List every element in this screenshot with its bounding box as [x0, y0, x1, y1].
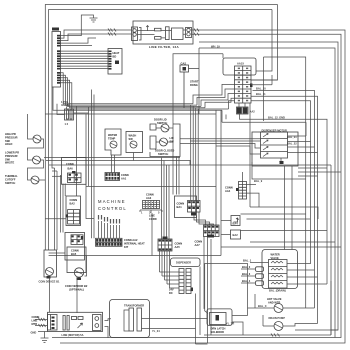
small box BA2 — [231, 230, 241, 239]
valve leads — [57, 104, 89, 115]
CONN BA6 box — [62, 158, 87, 185]
left switch circle 3 — [31, 176, 39, 184]
svg-text:CONN: CONN — [66, 162, 74, 166]
CONN AA5 grid — [158, 239, 172, 251]
filter left connector — [132, 27, 142, 41]
wires P12 groupC staircase down to bus — [53, 73, 229, 111]
verticals left of BA1 — [162, 158, 170, 240]
svg-text:BAL_(DRAIN): BAL_(DRAIN) — [269, 289, 286, 293]
CONN AA3 grid — [143, 201, 160, 209]
wire break symbols right of filter — [194, 29, 199, 36]
svg-text:HOLD: HOLD — [5, 142, 12, 146]
CONN AA2 grid bottom — [96, 238, 123, 246]
svg-text:BAL_12_GND: BAL_12_GND — [268, 116, 285, 120]
wires P12 groupA to line filter — [61, 30, 132, 46]
wires into dispenser motor left — [180, 139, 261, 154]
svg-text:BAL_4: BAL_4 — [242, 279, 251, 283]
svg-text:BAL_2: BAL_2 — [242, 265, 251, 269]
P12 pins group B — [57, 50, 60, 69]
filter arrow — [146, 26, 148, 32]
svg-text:HOT VALVE: HOT VALVE — [267, 297, 282, 301]
left text block 1 — [5, 132, 18, 146]
ground bottom left — [38, 332, 49, 343]
dispenser connector strips — [179, 269, 191, 294]
svg-text:BAL_C: BAL_C — [258, 304, 267, 308]
wash switch box — [126, 132, 143, 153]
misc right verticals — [263, 57, 265, 121]
svg-text:CONN: CONN — [175, 242, 183, 246]
transformer bars — [129, 308, 142, 331]
AA7 label — [195, 240, 203, 247]
svg-text:BA2: BA2 — [70, 201, 76, 205]
svg-text:WATER: WATER — [271, 253, 280, 257]
svg-text:HEAT: HEAT — [113, 51, 120, 55]
long wire y157.5 — [28, 157, 181, 159]
door closed label — [155, 149, 174, 156]
valve bank right wires — [287, 259, 327, 285]
svg-text:DISPENSER: DISPENSER — [176, 261, 191, 265]
valve bank left wires — [241, 263, 269, 284]
svg-text:GND: GND — [31, 331, 37, 335]
svg-text:BA1: BA1 — [177, 205, 183, 209]
svg-text:BA5: BA5 — [71, 252, 77, 256]
svg-text:LID: LID — [170, 136, 174, 140]
valve coil squiggles — [271, 261, 283, 284]
CONN AA7 grid — [204, 225, 220, 237]
dispenser motor wires right — [288, 122, 318, 152]
svg-text:AA4: AA4 — [225, 189, 231, 193]
dispenser feed wires — [85, 213, 180, 288]
water temp switch circle — [110, 141, 117, 148]
line filter box — [133, 21, 193, 44]
connector P12 label — [52, 28, 59, 31]
svg-text:WASTE: WASTE — [5, 161, 14, 165]
svg-text:MTR: MTR — [32, 322, 38, 326]
svg-text:SWITCH: SWITCH — [5, 181, 15, 185]
svg-text:CONN: CONN — [225, 186, 233, 190]
door lid switch box — [150, 124, 180, 157]
svg-text:SW: SW — [170, 139, 175, 143]
P12 pins group A — [57, 35, 60, 47]
filter block — [172, 28, 184, 40]
long wire y255.5 — [49, 255, 221, 257]
door lid circle B — [156, 138, 173, 146]
coin vendor box 2 — [67, 247, 86, 277]
svg-text:SOLENOID: SOLENOID — [211, 330, 225, 334]
connector P12 — [52, 32, 61, 88]
svg-text:CORD: CORD — [149, 217, 157, 221]
svg-text:WASH: WASH — [129, 134, 137, 138]
svg-text:CONN: CONN — [121, 173, 129, 177]
dispenser motor gnd arrow — [280, 158, 283, 164]
svg-text:SW: SW — [129, 137, 134, 141]
CONN AA3 label — [146, 193, 154, 200]
svg-text:BAL_11: BAL_11 — [256, 92, 266, 96]
left text block 2 — [5, 151, 19, 165]
wires P12 groupB to connector X2 — [61, 51, 109, 69]
AA1X grid — [235, 66, 252, 103]
svg-text:HIGH PR: HIGH PR — [5, 132, 16, 136]
svg-text:SWITCH: SWITCH — [158, 152, 168, 156]
CONN AA2 label — [124, 238, 145, 249]
svg-text:AA5: AA5 — [175, 245, 181, 249]
svg-text:INTERNAL HEAT: INTERNAL HEAT — [124, 241, 145, 245]
water temp switch box — [105, 129, 121, 155]
svg-text:AA7: AA7 — [195, 243, 201, 247]
wires filter out to right edge — [52, 30, 345, 343]
ground top — [81, 15, 97, 36]
wire y122 — [222, 121, 306, 123]
valve left tabs — [256, 267, 264, 286]
filter internal wires — [137, 30, 186, 38]
long wire y165 — [49, 165, 331, 335]
machine control bottom wire labels — [99, 221, 120, 238]
svg-text:BD: BD — [113, 54, 117, 58]
long wire y160.5 — [46, 161, 190, 166]
drain pump circle — [274, 322, 283, 331]
svg-text:CONN: CONN — [146, 193, 154, 197]
wire y48 — [199, 48, 335, 338]
filter right connector — [186, 28, 192, 38]
svg-text:DRN LATCH: DRN LATCH — [211, 327, 226, 331]
wire from AA2 down right — [240, 114, 328, 284]
filter cap C2 — [155, 37, 162, 40]
AA1X left entry steps — [193, 84, 235, 255]
left switch circle 1 — [33, 135, 41, 143]
lid sw small label — [170, 136, 175, 143]
X2 pin strip — [109, 51, 112, 70]
inner frame top/left wire — [49, 10, 272, 254]
wires from switch circles down — [77, 90, 134, 239]
left switch circle 2 — [33, 156, 41, 164]
filter cap C1 — [155, 28, 162, 31]
CONN AA4 label — [225, 186, 233, 193]
svg-text:SWI: SWI — [5, 139, 10, 143]
CONN AA4 strip — [239, 182, 247, 200]
svg-text:TRANSFORMER: TRANSFORMER — [124, 304, 144, 308]
door lid circle A — [156, 124, 173, 132]
X2 label — [115, 61, 119, 65]
filter coil — [166, 27, 170, 40]
door lid switch label — [154, 118, 167, 125]
dispenser motor arrows — [263, 134, 268, 157]
wires BA3 to AA7 — [194, 212, 214, 225]
motor left text — [32, 315, 40, 326]
svg-text:GAS: GAS — [181, 61, 187, 65]
svg-text:PRESSUR: PRESSUR — [5, 154, 18, 158]
water valve outer box — [262, 250, 298, 289]
motor left connector — [48, 315, 58, 331]
AA1X pin dot — [250, 84, 253, 88]
left column CONN BA5 — [65, 233, 85, 261]
svg-text:COMB: COMB — [32, 315, 40, 319]
circle1 wires — [28, 114, 44, 160]
svg-text:SWI: SWI — [5, 157, 10, 161]
CONN BA1 box — [175, 196, 197, 218]
svg-text:RONG: RONG — [190, 83, 198, 87]
wires AA1X grid bottom to AA2 — [239, 103, 245, 107]
AA3 bracket — [140, 210, 162, 213]
svg-text:BAL_21: BAL_21 — [287, 135, 297, 139]
svg-text:CONN AA2: CONN AA2 — [124, 238, 138, 242]
svg-text:YL_TR: YL_TR — [226, 322, 234, 326]
left text block 3 — [5, 174, 18, 185]
svg-text:BAL_9: BAL_9 — [254, 179, 263, 183]
svg-text:BAL_3: BAL_3 — [242, 272, 251, 276]
svg-text:LINE (MOTOR) 5A: LINE (MOTOR) 5A — [62, 333, 84, 337]
svg-text:THERMAL: THERMAL — [5, 174, 18, 178]
wire big box left — [173, 54, 223, 195]
svg-text:COIN VENDOR B2: COIN VENDOR B2 — [65, 284, 88, 288]
svg-text:BA6: BA6 — [68, 167, 74, 171]
svg-text:CONN: CONN — [195, 240, 203, 244]
left wires bundle — [52, 87, 65, 250]
motor arrow — [78, 323, 83, 328]
dispenser rounded box — [171, 258, 201, 267]
machine control top edge — [86, 186, 216, 218]
svg-text:DRAIN PUMP: DRAIN PUMP — [269, 316, 286, 320]
hot valve label — [267, 297, 282, 304]
svg-text:1 2: 1 2 — [65, 122, 69, 126]
svg-text:BAL_10: BAL_10 — [256, 87, 266, 91]
wire into BA2 — [45, 218, 66, 220]
connector X2 — [108, 49, 122, 75]
motor cap — [63, 316, 69, 331]
water valve label — [271, 253, 280, 260]
X2 text — [113, 51, 120, 58]
svg-text:LOWER PR: LOWER PR — [5, 151, 19, 155]
AA2 two pin connector — [237, 108, 247, 114]
mid verticals — [222, 110, 226, 122]
left column CONN BA2 — [70, 198, 78, 205]
svg-text:AA1X: AA1X — [237, 62, 244, 66]
CONN AA1 grid — [105, 173, 120, 181]
CONN BA3 grid — [188, 201, 201, 213]
GAS component — [180, 65, 199, 108]
P12 pins group C — [57, 72, 60, 84]
bottom wire y335 with breaks — [204, 281, 331, 337]
grid below BA6 — [68, 173, 82, 183]
water valve inner grid — [269, 260, 288, 289]
svg-text:DOOR CLOSED: DOOR CLOSED — [155, 149, 174, 153]
transformer rounded box — [110, 300, 150, 338]
svg-text:CONTROL: CONTROL — [98, 206, 127, 211]
svg-text:CONN: CONN — [70, 198, 78, 202]
svg-text:KIT: KIT — [124, 245, 129, 249]
small box BA4 — [231, 216, 240, 226]
svg-text:24V: 24V — [169, 288, 174, 292]
motor assembly outer box — [48, 312, 103, 331]
svg-text:AA3: AA3 — [146, 196, 152, 200]
circle2 wires — [28, 160, 46, 180]
coin device box 1 — [44, 250, 57, 277]
svg-text:DC: DC — [169, 291, 173, 295]
long wire y114 — [45, 113, 216, 115]
svg-text:WATER: WATER — [108, 133, 117, 137]
svg-text:VALVE: VALVE — [61, 103, 70, 107]
right middle bend wires — [252, 162, 341, 250]
wire y57 — [199, 48, 306, 308]
svg-text:LINE FILTER, 12A: LINE FILTER, 12A — [149, 45, 179, 49]
dispenser motor box — [261, 132, 288, 158]
svg-text:BAL_22: BAL_22 — [287, 142, 297, 146]
BA3 feed verticals — [191, 105, 199, 200]
svg-text:TEMP: TEMP — [108, 136, 115, 140]
AA1X right wires — [251, 75, 318, 324]
hot valve circle — [274, 304, 283, 313]
dispenser verticals down — [196, 237, 212, 345]
svg-text:START: START — [190, 80, 199, 84]
motor small blocks — [72, 317, 84, 320]
wire y42 — [199, 42, 338, 330]
svg-text:CUTOFF: CUTOFF — [5, 177, 16, 181]
wash switch circle — [130, 141, 137, 148]
svg-text:AA1: AA1 — [121, 176, 127, 180]
DRN latch solenoid — [207, 309, 232, 326]
svg-text:PRESSUR: PRESSUR — [5, 135, 18, 139]
svg-text:DOOR LID: DOOR LID — [154, 118, 167, 122]
svg-text:CONN: CONN — [71, 249, 79, 253]
outer frame top/left wire — [45, 5, 277, 251]
wire break symbols — [108, 29, 116, 36]
motor to transformer wires — [50, 277, 112, 338]
svg-text:BAL_1: BAL_1 — [243, 259, 252, 263]
svg-text:CONN: CONN — [177, 202, 185, 206]
svg-text:YL_24: YL_24 — [152, 329, 160, 333]
svg-text:LINE: LINE — [32, 318, 38, 322]
svg-text:BA2: BA2 — [233, 233, 239, 237]
svg-text:BA4: BA4 — [233, 222, 239, 226]
1 POL VALVE coil — [65, 109, 74, 120]
dispenser motor outer box — [252, 132, 298, 166]
motor right connector — [93, 315, 102, 331]
right area long horizontals — [221, 103, 341, 247]
motor feed wires with breaks — [35, 318, 48, 327]
svg-text:MACHINE: MACHINE — [98, 199, 126, 204]
AA1X cell marks — [238, 68, 248, 102]
AA1X outer box — [223, 58, 256, 75]
